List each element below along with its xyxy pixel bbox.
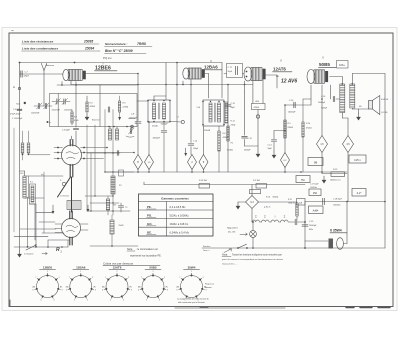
svg-text:35W4: 35W4 bbox=[188, 265, 196, 269]
terminal A bbox=[18, 87, 20, 89]
svg-text:4: 4 bbox=[87, 300, 88, 302]
box 2.2v bbox=[352, 189, 366, 197]
capacitor C14 to ground bbox=[274, 130, 285, 132]
svg-text:7: 7 bbox=[69, 277, 70, 279]
svg-text:470pF 470pF: 470pF 470pF bbox=[10, 114, 20, 116]
wire switch verticals bbox=[27, 197, 29, 247]
wire detector output x285 bbox=[284, 105, 286, 153]
svg-text:164Kc à 318 Kc: 164Kc à 318 Kc bbox=[170, 222, 189, 226]
svg-text:(M): (M) bbox=[32, 287, 35, 289]
svg-text:20pF: 20pF bbox=[228, 71, 233, 73]
oscillator coil L1 bbox=[23, 176, 26, 198]
svg-text:Tous c…: Tous c… bbox=[203, 250, 211, 252]
svg-text:(M): (M) bbox=[138, 287, 141, 289]
output transformer primary bbox=[340, 84, 345, 113]
svg-text:(M): (M) bbox=[66, 287, 69, 289]
wire AVC bus y184 bbox=[144, 184, 305, 186]
diamond 1,5 bbox=[145, 155, 154, 170]
svg-text:2: 2 bbox=[92, 277, 93, 279]
svg-text:25046: 25046 bbox=[152, 125, 159, 127]
svg-text:E.2,5Ω: E.2,5Ω bbox=[382, 112, 388, 114]
svg-text:3: 3 bbox=[131, 289, 132, 291]
svg-text:150/470pF: 150/470pF bbox=[31, 113, 39, 115]
wire rectifier bbox=[305, 240, 328, 242]
svg-text:2: 2 bbox=[164, 277, 165, 279]
tube V4 50B5 output bbox=[307, 70, 328, 84]
electrolytic C17 bbox=[309, 189, 321, 196]
wire volume line bbox=[14, 246, 68, 248]
variable capacitor CO section bbox=[62, 145, 82, 165]
svg-text:: le commutateur est: : le commutateur est bbox=[136, 248, 158, 251]
svg-text:filament: filament bbox=[205, 286, 212, 289]
svg-text:7: 7 bbox=[105, 277, 106, 279]
svg-text:PE.: PE. bbox=[147, 205, 152, 209]
bloc accord box bbox=[57, 84, 137, 86]
oscillator coil BO bbox=[106, 199, 109, 210]
capacitor C19 25000pF bbox=[304, 202, 306, 242]
svg-text:P.Q.mu: P.Q.mu bbox=[103, 56, 112, 60]
svg-text:PO.: PO. bbox=[147, 213, 152, 217]
svg-text:R.16: R.16 bbox=[306, 123, 310, 125]
svg-text:25048: 25048 bbox=[204, 130, 211, 132]
capacitor C8 in bloc bbox=[108, 107, 109, 112]
diamond 2 bbox=[188, 155, 197, 170]
svg-text:C.4 50pF: C.4 50pF bbox=[62, 130, 71, 132]
resistor A16 box 470k bbox=[252, 103, 266, 109]
svg-text:12BE6: 12BE6 bbox=[43, 265, 53, 269]
capacitor C17 box bbox=[227, 64, 243, 78]
mains bus bbox=[202, 247, 385, 249]
wire 12AT6 diode leads bbox=[244, 81, 246, 92]
svg-text:Plaque sur: Plaque sur bbox=[205, 283, 214, 286]
svg-text:25095: 25095 bbox=[83, 40, 93, 44]
wire bloc bottom line bbox=[108, 126, 110, 128]
trimmer C1 bbox=[38, 103, 39, 108]
trimmer C2 bbox=[45, 103, 46, 108]
svg-text:50B5: 50B5 bbox=[149, 265, 157, 269]
diamond 6,3 bbox=[246, 196, 259, 209]
svg-text:10000pF: 10000pF bbox=[161, 124, 169, 126]
wire antenna to converter bbox=[20, 73, 63, 75]
oscillator coil L2 bbox=[30, 184, 36, 204]
svg-text:4 HP 5Ω: 4 HP 5Ω bbox=[381, 99, 389, 101]
svg-text:A: A bbox=[13, 85, 15, 89]
resistor R7 bbox=[71, 112, 73, 123]
svg-text:150/200v: 150/200v bbox=[310, 187, 317, 189]
svg-text:470kΩ: 470kΩ bbox=[254, 107, 260, 109]
svg-text:470pF: 470pF bbox=[24, 76, 30, 78]
svg-text:R.14 1kΩ: R.14 1kΩ bbox=[199, 180, 208, 182]
electrolytic C18 bbox=[323, 198, 325, 204]
svg-text:PO: PO bbox=[41, 175, 44, 177]
svg-text:500kΩ: 500kΩ bbox=[227, 150, 233, 152]
wire long drop x177 bbox=[176, 63, 178, 173]
rectifier tube 35W4 bbox=[329, 239, 334, 249]
table gammes couvertes bbox=[139, 194, 214, 236]
svg-text:150/470pF: 150/470pF bbox=[64, 110, 72, 112]
svg-text:2. 150/470pF: 2. 150/470pF bbox=[12, 118, 22, 120]
resistor R9 4,7M bbox=[119, 101, 121, 112]
svg-text:12BA6: 12BA6 bbox=[76, 265, 86, 269]
resistor R8 grid leak bbox=[218, 126, 220, 131]
svg-text:AvB4: AvB4 bbox=[313, 210, 319, 213]
coil 25044 windings bbox=[109, 129, 112, 140]
bottom frame dashes bbox=[346, 307, 354, 309]
IF transformer MF2 25048 bbox=[203, 100, 224, 126]
wire B+ filter line y201 bbox=[305, 201, 385, 203]
svg-text:C.17 50µF: C.17 50µF bbox=[310, 183, 319, 185]
resistor R4 bbox=[199, 184, 210, 188]
svg-text:100pF: 100pF bbox=[193, 148, 199, 150]
trimmers in bloc bbox=[57, 99, 58, 104]
resistor R10 bbox=[251, 185, 253, 196]
svg-text:470kΩ: 470kΩ bbox=[90, 106, 96, 108]
svg-text:R.3: R.3 bbox=[90, 103, 93, 105]
svg-text:47kΩ: 47kΩ bbox=[74, 120, 79, 122]
wires into gang2 bbox=[20, 228, 56, 230]
svg-text:(M): (M) bbox=[176, 287, 179, 289]
svg-text:47kΩ: 47kΩ bbox=[231, 124, 236, 126]
winding 25048 outer bbox=[225, 102, 228, 123]
box 115v bbox=[349, 155, 366, 163]
svg-text:R.7: R.7 bbox=[74, 117, 77, 119]
svg-text:Toutes les tensions indiquées: Toutes les tensions indiquées sont mesu… bbox=[232, 254, 282, 257]
wire bloc to MF1 bbox=[137, 100, 148, 102]
antenna coil pair bbox=[21, 143, 24, 153]
svg-text:2: 2 bbox=[203, 277, 204, 279]
box 7M bbox=[296, 176, 310, 183]
wire 12BA6 grid stub bbox=[182, 81, 184, 85]
wire measuring bus y172 bbox=[105, 171, 347, 173]
svg-text:R: R bbox=[56, 247, 60, 253]
svg-text:4/0...074: 4/0...074 bbox=[228, 232, 235, 234]
svg-text:Antenne: Antenne bbox=[45, 64, 55, 67]
svg-text:C.10: C.10 bbox=[193, 141, 197, 143]
tube V1 12BE6 converter bbox=[63, 69, 86, 80]
svg-text:10000pF: 10000pF bbox=[288, 112, 296, 114]
svg-text:La lampe 35W4 doit être monte: La lampe 35W4 doit être montée de bbox=[177, 297, 210, 300]
wire screen bus y84 bbox=[71, 84, 253, 86]
svg-text:98: 98 bbox=[314, 161, 318, 165]
capacitor C12 on diode line bbox=[244, 92, 246, 135]
svg-text:106+: 106+ bbox=[339, 63, 345, 67]
svg-text:25Ω: 25Ω bbox=[313, 193, 318, 195]
svg-text:réseau 115 v. …: réseau 115 v. … bbox=[222, 263, 238, 266]
capacitor C4 50pF bbox=[73, 128, 78, 129]
svg-text:4: 4 bbox=[54, 300, 55, 302]
svg-text:25045: 25045 bbox=[119, 225, 124, 227]
capacitor padder bbox=[118, 206, 123, 207]
diamond 8 bbox=[134, 155, 143, 170]
box 98v bbox=[308, 158, 323, 166]
wire heater top line bbox=[259, 201, 298, 203]
resistor R15 bbox=[296, 203, 298, 216]
svg-text:GO.: GO. bbox=[147, 222, 152, 226]
svg-text:Σ: Σ bbox=[264, 215, 266, 219]
speaker bbox=[369, 101, 373, 110]
tube V3 12AT6 detector bbox=[244, 67, 266, 81]
output transformer secondary bbox=[350, 84, 355, 108]
wire coil taps bbox=[24, 171, 26, 176]
svg-text:ou: ou bbox=[276, 74, 280, 78]
svg-text:3: 3 bbox=[95, 289, 96, 291]
antenna bbox=[41, 63, 44, 70]
svg-text:C.10 470pF: C.10 470pF bbox=[13, 109, 22, 111]
svg-text:Term: Term bbox=[16, 103, 21, 106]
oscillator padder coil bbox=[111, 176, 115, 194]
wire 50B5 cathode x322 bbox=[321, 85, 323, 136]
svg-text:représenté sur la position P: représenté sur la position PE. bbox=[130, 255, 162, 258]
diamond 4,5 bbox=[343, 136, 354, 153]
svg-text:1: 1 bbox=[80, 271, 81, 273]
svg-text:220kΩ: 220kΩ bbox=[288, 127, 294, 129]
capacitor C16 coupling bbox=[285, 104, 311, 106]
svg-text:1: 1 bbox=[191, 271, 192, 273]
volume potentiometer bbox=[26, 245, 36, 250]
svg-text:5000pF: 5000pF bbox=[244, 150, 251, 152]
svg-text:5: 5 bbox=[146, 300, 147, 302]
svg-text:C.14: C.14 bbox=[268, 145, 272, 147]
capacitor C10 on cathode bbox=[188, 144, 194, 145]
ground detector bbox=[257, 146, 259, 150]
resistor R3 + ground externe bbox=[86, 102, 88, 112]
tube V2 12BA6 IF amplifier bbox=[183, 68, 205, 79]
resistor R5 bbox=[256, 184, 267, 188]
svg-text:1: 1 bbox=[47, 271, 48, 273]
svg-text:II 35W4: II 35W4 bbox=[330, 229, 342, 233]
svg-text:2: 2 bbox=[59, 277, 60, 279]
svg-text:Hygrométrie: Hygrométrie bbox=[227, 227, 239, 230]
grid cap circle bbox=[170, 121, 181, 124]
svg-text:Nota:: Nota: bbox=[222, 254, 228, 257]
resistor R9 220k bbox=[284, 120, 286, 138]
svg-text:Gammes couvertes: Gammes couvertes bbox=[161, 197, 189, 201]
wire transformer bottom to diamond bbox=[341, 113, 343, 119]
heater chain coils bbox=[251, 209, 253, 223]
svg-text:115 v: 115 v bbox=[354, 158, 361, 162]
svg-text:C.8:: C.8: bbox=[131, 114, 135, 116]
left frame tick bbox=[9, 300, 11, 306]
svg-text:C.Volume: C.Volume bbox=[24, 254, 34, 256]
svg-text:1000Ω 1,5 w: 1000Ω 1,5 w bbox=[330, 180, 341, 182]
svg-text:Secteur: Secteur bbox=[203, 245, 211, 248]
svg-text:6: 6 bbox=[66, 289, 67, 291]
svg-text:Accord: Accord bbox=[128, 117, 137, 120]
svg-text:150/200v: 150/200v bbox=[333, 205, 340, 207]
svg-text:2: 2 bbox=[128, 277, 129, 279]
wire 12BA6 plate bbox=[205, 73, 209, 75]
oscillator coil lower 25045 bbox=[110, 220, 114, 234]
svg-text:600v: 600v bbox=[309, 229, 313, 231]
wire 12BA6 cathode drop bbox=[190, 79, 192, 143]
svg-text:C.18 50µF: C.18 50µF bbox=[333, 199, 343, 201]
IF transformer MF1 25046 bbox=[148, 100, 170, 122]
chassis arrow 12BA6 cathode bbox=[185, 148, 187, 154]
svg-text:telle orientation par le filam: telle orientation par le filament bbox=[178, 301, 205, 304]
svg-text:4: 4 bbox=[159, 300, 160, 302]
wire speaker leads bbox=[351, 108, 353, 109]
svg-text:12AT6: 12AT6 bbox=[113, 265, 122, 269]
svg-text:1: 1 bbox=[117, 271, 118, 273]
svg-text:12BA6: 12BA6 bbox=[204, 65, 218, 70]
svg-text:BE.: BE. bbox=[147, 230, 152, 234]
svg-text:Nota: Nota bbox=[127, 248, 133, 251]
svg-text:10kΩ 5w: 10kΩ 5w bbox=[288, 203, 296, 205]
svg-text:5600Ω: 5600Ω bbox=[273, 197, 279, 199]
wire converter plate bbox=[86, 73, 139, 75]
diamond 6 bbox=[199, 155, 208, 170]
wire 12AT6 plate to output grid bbox=[263, 74, 278, 76]
svg-text:3: 3 bbox=[206, 289, 207, 291]
svg-text:Externe: Externe bbox=[92, 119, 100, 122]
svg-text:Liste des condensateurs: Liste des condensateurs bbox=[22, 47, 59, 51]
mains switch bbox=[237, 247, 239, 249]
svg-text:Liste des résistances: Liste des résistances bbox=[22, 40, 54, 44]
svg-text:0,4 à 18,5 Mc: 0,4 à 18,5 Mc bbox=[170, 205, 187, 209]
capacitor C9 bbox=[135, 122, 141, 123]
ground at R13 bbox=[322, 176, 326, 183]
svg-text:R.1: R.1 bbox=[30, 182, 33, 184]
capacitor C16 tone across primary bbox=[330, 85, 332, 99]
svg-text:GO: GO bbox=[20, 173, 24, 175]
svg-text:12 AV6: 12 AV6 bbox=[281, 79, 297, 85]
wire mesh mid-left bbox=[86, 125, 88, 211]
svg-text:R.10: R.10 bbox=[266, 197, 270, 199]
svg-text:4,7MΩ: 4,7MΩ bbox=[123, 106, 129, 108]
wire AVC column x228 bbox=[227, 85, 229, 173]
svg-text:25094: 25094 bbox=[84, 47, 94, 51]
svg-text:4: 4 bbox=[123, 300, 124, 302]
wire 50B5 plate bbox=[330, 76, 343, 78]
gang shaft bbox=[71, 177, 73, 212]
svg-text:R.8: R.8 bbox=[223, 133, 226, 135]
box 106+ bbox=[337, 61, 349, 69]
diamond 0,2 bbox=[281, 153, 290, 168]
svg-text:5: 5 bbox=[110, 300, 111, 302]
resistor R12 bbox=[227, 126, 229, 141]
svg-text:Σ: Σ bbox=[284, 215, 286, 219]
svg-text:5: 5 bbox=[74, 300, 75, 302]
trimmer accord bbox=[130, 128, 131, 133]
svg-text:3: 3 bbox=[62, 289, 63, 291]
box AVB4 bbox=[309, 206, 324, 214]
svg-text:6: 6 bbox=[138, 289, 139, 291]
svg-text:150/470pF: 150/470pF bbox=[52, 110, 60, 112]
svg-text:12AT6: 12AT6 bbox=[273, 67, 286, 72]
svg-text:1: 1 bbox=[153, 271, 154, 273]
svg-text:6: 6 bbox=[33, 289, 34, 291]
svg-text:3: 3 bbox=[167, 289, 168, 291]
capacitor C19 50pF bbox=[225, 105, 231, 106]
svg-text:Nomenclature :: Nomenclature : bbox=[105, 42, 128, 46]
wire B+ to transformer bbox=[351, 74, 353, 85]
diamond 1,5 bbox=[317, 136, 328, 153]
corner tick bbox=[12, 30, 14, 32]
wire MF1 connections bbox=[153, 96, 155, 100]
svg-text:R.9: R.9 bbox=[123, 103, 126, 105]
left bus segment bbox=[13, 128, 15, 232]
svg-text:port à la masse et corresponde: port à la masse et correspondent au fonc… bbox=[222, 258, 284, 261]
capacitor in osc bbox=[119, 170, 124, 176]
svg-text:5: 5 bbox=[41, 300, 42, 302]
svg-text:470kΩ: 470kΩ bbox=[306, 128, 312, 130]
svg-text:Bloc N° “C” 25099: Bloc N° “C” 25099 bbox=[105, 49, 133, 53]
terminal terre bbox=[24, 102, 26, 104]
svg-text:515Kc à 1600Kc: 515Kc à 1600Kc bbox=[170, 213, 190, 217]
resistor R13 1000ohm bbox=[321, 153, 323, 174]
svg-text:6: 6 bbox=[177, 289, 178, 291]
svg-text:25000pF: 25000pF bbox=[309, 225, 317, 227]
svg-text:A16: A16 bbox=[256, 100, 259, 103]
svg-text:P.2: P.2 bbox=[119, 185, 122, 187]
down arrows bbox=[52, 205, 54, 212]
capacitor C7 bbox=[21, 71, 22, 77]
ground heater bbox=[238, 201, 246, 203]
svg-text:C.Vernier: C.Vernier bbox=[60, 196, 69, 198]
capacitor MF1 secondary drop bbox=[163, 122, 165, 130]
wire to band switch bbox=[90, 245, 138, 247]
svg-text:R.15: R.15 bbox=[288, 199, 292, 201]
coil 25047 box bbox=[67, 201, 81, 210]
svg-text:7M.: 7M. bbox=[301, 178, 306, 182]
svg-text:10000pF: 10000pF bbox=[153, 138, 161, 140]
svg-text:R.5 1kΩ: R.5 1kΩ bbox=[253, 180, 260, 182]
terminal P bbox=[47, 121, 49, 123]
trimmer P bbox=[62, 182, 66, 186]
svg-text:6,34Mc à 5,4 Mc: 6,34Mc à 5,4 Mc bbox=[170, 230, 190, 234]
wire cathode drop bbox=[75, 82, 77, 128]
border frame bbox=[9, 33, 393, 307]
svg-text:7: 7 bbox=[35, 277, 36, 279]
svg-text:φ 31,5: φ 31,5 bbox=[264, 206, 271, 209]
svg-text:(M): (M) bbox=[102, 287, 105, 289]
capacitor heater bypass bbox=[295, 219, 297, 225]
svg-text:7R/98: 7R/98 bbox=[137, 42, 146, 46]
variable capacitor CA section bbox=[62, 219, 81, 238]
svg-text:50B5: 50B5 bbox=[319, 62, 330, 67]
pilot lamp bbox=[250, 231, 257, 238]
wire top bus bbox=[20, 62, 223, 64]
svg-text:Σ: Σ bbox=[255, 215, 257, 219]
svg-text:6: 6 bbox=[102, 289, 103, 291]
svg-text:7: 7 bbox=[141, 277, 142, 279]
svg-text:7: 7 bbox=[179, 277, 180, 279]
